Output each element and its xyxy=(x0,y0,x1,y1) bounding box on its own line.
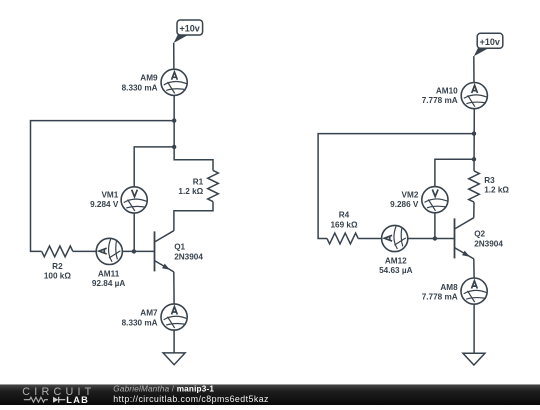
svg-text:169 kΩ: 169 kΩ xyxy=(330,220,357,229)
svg-text:GabrielMantha / manip3-1: GabrielMantha / manip3-1 xyxy=(113,385,214,394)
ammeter AM7 8.330 mA xyxy=(161,304,187,330)
wire +10v to AM10 xyxy=(473,56,475,82)
svg-text:AM11: AM11 xyxy=(98,270,120,279)
svg-text:R4: R4 xyxy=(339,211,350,220)
svg-text:+10v: +10v xyxy=(179,24,199,34)
svg-text:R1: R1 xyxy=(193,178,204,187)
svg-text:R2: R2 xyxy=(52,262,63,271)
wire Q1 emitter to AM7 xyxy=(173,272,175,304)
resistor R1 1.2 k xyxy=(208,170,219,201)
node: junction AM9/base-rail xyxy=(172,118,176,122)
wire +10v to AM9 xyxy=(173,43,175,69)
svg-text:9.284 V: 9.284 V xyxy=(90,200,119,209)
svg-text:1.2 kΩ: 1.2 kΩ xyxy=(484,186,509,195)
resistor R3 1.2 k xyxy=(469,171,480,202)
ammeter AM8 7.778 mA xyxy=(461,278,487,304)
ground (left) xyxy=(163,353,185,365)
svg-text:8.330 mA: 8.330 mA xyxy=(122,318,158,327)
svg-text:R3: R3 xyxy=(484,176,495,185)
svg-text:Q2: Q2 xyxy=(474,230,485,239)
ammeter AM11 92.84 uA xyxy=(96,238,122,264)
transistor Q2 2N3904 xyxy=(455,218,474,259)
svg-text:7.778 mA: 7.778 mA xyxy=(422,96,458,105)
ammeter AM9 8.330 mA xyxy=(161,69,187,95)
wire AM12 to Q2 base xyxy=(408,238,455,240)
svg-text:1.2 kΩ: 1.2 kΩ xyxy=(178,187,203,196)
wire VM2 bottom to base xyxy=(434,213,436,239)
wire AM8 to ground xyxy=(473,304,475,353)
wire R1 bottom to collector xyxy=(174,202,213,231)
svg-text:2N3904: 2N3904 xyxy=(174,252,203,261)
svg-text:54.63 µA: 54.63 µA xyxy=(379,266,412,275)
node: junction AM10/base-rail xyxy=(472,131,476,135)
wire VM1 bottom to base xyxy=(133,213,135,251)
svg-text:AM12: AM12 xyxy=(385,257,407,266)
ammeter AM12 54.63 uA xyxy=(382,225,408,251)
wire junction to left rail (right circuit) xyxy=(318,134,474,239)
svg-text:Q1: Q1 xyxy=(174,243,185,252)
svg-text:+10v: +10v xyxy=(480,37,500,47)
voltmeter VM1 9.284 V xyxy=(121,187,147,213)
wire AM9 down main vertical xyxy=(174,95,213,170)
svg-text:8.330 mA: 8.330 mA xyxy=(122,83,158,92)
svg-text:LAB: LAB xyxy=(66,395,89,405)
transistor Q1 2N3904 xyxy=(155,231,174,272)
svg-text:7.778 mA: 7.778 mA xyxy=(422,292,458,301)
wire AM7 to ground xyxy=(173,330,175,353)
wire R3 bottom to collector xyxy=(473,202,475,218)
node: junction VM1 top tee xyxy=(172,145,176,149)
node: junction base/VM1 xyxy=(132,249,136,253)
svg-text:2N3904: 2N3904 xyxy=(474,239,503,248)
svg-text:VM1: VM1 xyxy=(101,190,118,199)
wire R4 to AM12 xyxy=(358,238,381,240)
svg-text:VM2: VM2 xyxy=(402,190,419,199)
power supply +10v (right) xyxy=(477,33,503,48)
wire Q2 emitter to AM8 xyxy=(473,259,475,278)
svg-text:9.286 V: 9.286 V xyxy=(390,200,419,209)
resistor R4 169 k xyxy=(327,233,358,244)
svg-text:AM10: AM10 xyxy=(436,86,458,95)
wire VM1 top tee xyxy=(134,147,174,187)
wire AM10 down main vertical xyxy=(473,109,475,171)
CircuitLab logo xyxy=(22,386,95,405)
svg-text:http://circuitlab.com/c8pms6ed: http://circuitlab.com/c8pms6edt5kaz xyxy=(113,394,269,404)
node: junction VM2 top tee xyxy=(472,157,476,161)
wire VM2 top tee xyxy=(435,159,474,186)
wire junction to left rail xyxy=(31,121,175,252)
ammeter AM10 7.778 mA xyxy=(461,83,487,109)
resistor R2 100 k xyxy=(42,246,73,257)
wire AM11 to Q1 base xyxy=(122,250,154,252)
svg-text:92.84 µA: 92.84 µA xyxy=(92,279,125,288)
svg-text:AM9: AM9 xyxy=(140,74,158,83)
svg-text:AM8: AM8 xyxy=(440,283,458,292)
node: junction base/VM2 xyxy=(433,236,437,240)
ground (right) xyxy=(463,353,485,365)
svg-text:100 kΩ: 100 kΩ xyxy=(44,272,71,281)
power supply +10v (left) xyxy=(177,20,203,35)
wire R2 to AM11 xyxy=(73,250,96,252)
svg-text:AM7: AM7 xyxy=(140,309,158,318)
voltmeter VM2 9.286 V xyxy=(422,187,448,213)
